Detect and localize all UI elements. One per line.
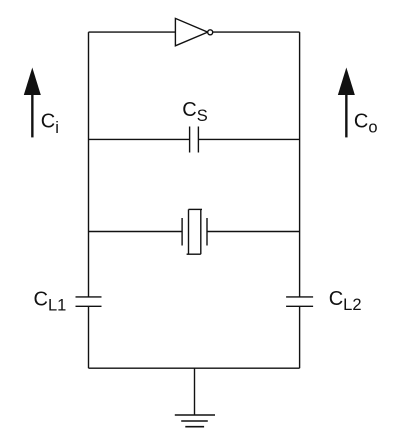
ground [175,415,215,427]
wire top right horizontal [213,31,300,33]
wire right rail upper [299,32,301,297]
wire left rail lower [88,306,90,368]
arrow Co [338,68,355,138]
arrow Ci [24,68,41,138]
wire crystal branch right [207,231,300,233]
wire right rail lower [299,306,301,368]
inverter U1 [175,18,212,45]
wire top left horizontal [89,31,176,33]
wire ground stem [194,368,196,415]
capacitor CL1 [76,297,102,306]
wire bottom horizontal [89,367,300,369]
wire left rail upper [88,32,90,297]
capacitor CL2 [286,297,313,306]
wire crystal branch left [89,231,183,233]
wire Cs branch right [198,138,299,140]
wire Cs branch left [89,138,190,140]
capacitor CS [190,127,199,153]
crystal X1 [182,209,207,254]
